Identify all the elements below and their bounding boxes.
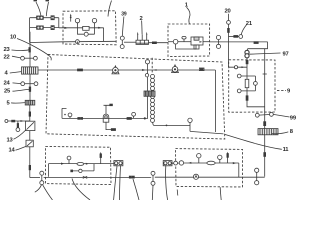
svg-text:21: 21 <box>246 21 253 27</box>
svg-text:23: 23 <box>4 47 11 53</box>
svg-text:99: 99 <box>290 116 297 122</box>
svg-text:20: 20 <box>225 9 231 15</box>
svg-text:97: 97 <box>283 52 289 58</box>
svg-text:11: 11 <box>283 147 290 153</box>
svg-text:24: 24 <box>4 80 11 86</box>
svg-text:14: 14 <box>9 147 16 153</box>
svg-text:10: 10 <box>10 35 16 41</box>
svg-text:25: 25 <box>4 88 11 94</box>
svg-text:22: 22 <box>4 55 10 61</box>
svg-text:39: 39 <box>121 11 127 17</box>
svg-text:13: 13 <box>7 137 14 143</box>
svg-text:2: 2 <box>140 16 143 22</box>
